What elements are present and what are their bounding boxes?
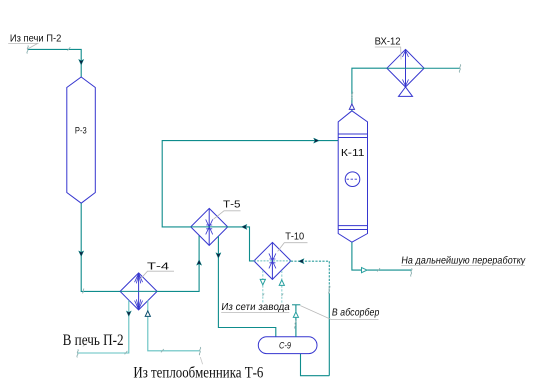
arrow down (to furnace) [126,311,131,317]
arrow into Р-3 top [79,59,84,65]
svg-text:ВХ-12: ВХ-12 [375,37,401,48]
open arrow up (overhead) [349,104,354,110]
air cooler ВХ-12 [387,49,424,96]
wire through Т-5 [191,226,228,228]
open arrow up into Т-4 [145,311,150,317]
water line out of Т-10 (dashed) [262,271,264,303]
wire: Т-4 out to furnace П-2 (light) [78,300,129,353]
svg-text:В абсорбер: В абсорбер [331,307,380,319]
leader from Т-6 line to label [133,37,526,382]
svg-text:К-11: К-11 [341,148,365,159]
wire through Т-4 [120,290,157,292]
break tick on Т-6 line [161,349,164,352]
column Р-3 [67,77,96,203]
break tick on feed line [68,47,71,50]
svg-text:Р-3: Р-3 [75,125,87,135]
open arrow right [362,268,368,273]
arrow up into Т-5 [197,260,202,266]
wire: Т-10 to Т-5 jog [228,227,254,261]
break tick near Т-4 [82,289,84,294]
wire: К-11 overhead to ВХ-12 [352,68,387,111]
arrow down on Р-3 bottoms [79,251,84,257]
svg-text:Т-5: Т-5 [223,199,241,210]
wire: feed from furnace П-2 into Р-3 [28,49,82,77]
break mark on riser [329,286,330,294]
open arrow up (water in) [279,280,284,286]
separator С-9 [258,337,317,354]
heat exchanger Т-4 [120,273,157,310]
heat exchanger Т-5 [191,208,228,245]
wire: from Т-6 exchanger into Т-4 (light) [148,300,200,351]
svg-text:Т-10: Т-10 [285,232,304,243]
wire through ВХ-12 and onwards [387,67,460,69]
svg-text:Из печи П-2: Из печи П-2 [10,33,62,44]
open arrow up (to absorber) [293,312,298,318]
wires and components injected below [8,33,201,357]
wire: Т-5 shell out down to С-9 [218,236,275,337]
break mark [351,92,352,100]
wire: Т-4 to Т-5 [157,235,199,291]
arrow left into Т-10 [299,259,305,264]
leader from В печь П-2 label to line [63,300,201,355]
break flag at Т-6 end [199,347,200,355]
svg-text:Из сети завода: Из сети завода [221,302,291,313]
arrow left into Т-5 [241,224,247,229]
wire: Р-3 bottoms to Т-4 [81,203,120,291]
open arrow down (water out) [260,279,265,285]
end bar [292,304,300,306]
break tick at corner [125,351,128,354]
break flag at end [411,268,412,276]
water line into Т-10 (dashed) [281,271,283,304]
arrow down (Т-5 to С-9) [216,253,221,259]
svg-text:С-9: С-9 [279,341,291,351]
break flag at В печь end [77,349,78,357]
heat exchanger Т-10 [254,242,291,279]
column К-11 [338,111,367,242]
wire: К-11 bottoms to further processing [352,242,411,270]
break mark [295,321,296,329]
label underline + leader [8,43,38,49]
break tick [377,268,380,271]
arrow right into К-11 [314,138,320,143]
svg-text:В печь П-2: В печь П-2 [63,332,124,349]
svg-text:Из теплообменника Т-6: Из теплообменника Т-6 [133,365,263,382]
wire through Т-10 (light dashed) [254,260,291,262]
break mark at line start [27,46,28,54]
wire: Т-5 left to К-11 feed [162,141,338,227]
wire: С-9 bottoms to Т-10 (dashed riser) [291,261,329,294]
svg-text:На дальнейшую переработку: На дальнейшую переработку [401,254,527,266]
break flag at right end [459,64,460,72]
wire: С-9 vapor to absorber [295,305,297,337]
